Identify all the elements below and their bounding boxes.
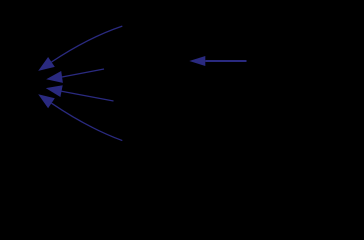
straight arrow from lower right to left convergence point [46, 85, 114, 101]
horizontal arrow pointing left at middle right [189, 56, 246, 66]
curved arrow from lower right curving up to left convergence point [38, 94, 122, 140]
straight arrow from right to left convergence point [46, 69, 104, 83]
curved arrow from upper right curving down to left convergence point [38, 26, 122, 71]
